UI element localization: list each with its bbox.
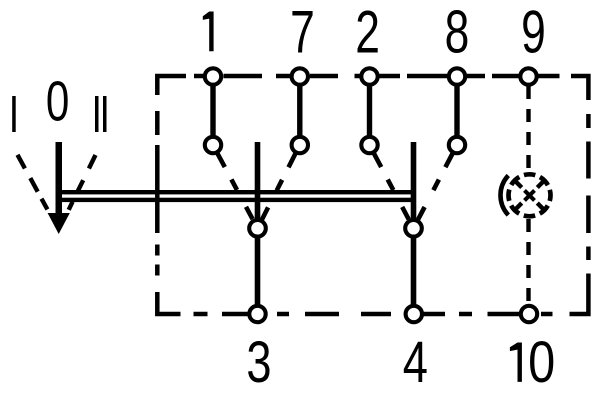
- lever arrow head: [48, 213, 70, 234]
- svg-text:0: 0: [46, 69, 69, 133]
- dashed contact path 2: [374, 153, 409, 219]
- svg-text:9: 9: [521, 0, 546, 66]
- dashed lever position line I: [18, 155, 48, 210]
- enclosure corner bottom-right: [570, 274, 589, 315]
- bridge bus upper line: [58, 190, 416, 194]
- dashed wire lamp to terminal 10: [526, 219, 530, 305]
- contact 2: [361, 137, 377, 153]
- wire vertical mover column 4: [411, 142, 417, 314]
- terminal 10: [521, 306, 537, 322]
- wire terminal 1 to contact: [210, 78, 215, 145]
- terminal 3: [249, 306, 265, 322]
- label terminal 1: [203, 12, 214, 52]
- contact 1: [205, 137, 221, 153]
- svg-text:2: 2: [355, 0, 380, 66]
- svg-text:4: 4: [403, 331, 428, 396]
- enclosure border right edge (dash-dot): [586, 114, 591, 260]
- enclosure border left edge (dash-dot): [155, 111, 160, 276]
- svg-text:0: 0: [528, 331, 555, 395]
- label position I: [12, 96, 16, 132]
- lamp L1 cross arms: [515, 181, 544, 210]
- wire vertical mover column 3: [255, 142, 261, 314]
- terminal 1: [205, 68, 221, 84]
- lamp L1 dashed circle: [509, 174, 551, 216]
- enclosure corner top-left: [157, 76, 186, 95]
- mover contact node column 4: [405, 220, 422, 237]
- terminal 4: [406, 306, 422, 322]
- dashed contact path 7: [262, 153, 296, 220]
- wire terminal 8 to contact: [454, 78, 459, 145]
- dashed contact path 1: [217, 153, 252, 219]
- dashed wire terminal 9 to lamp: [526, 86, 530, 172]
- dashed contact path 8: [418, 153, 453, 219]
- label terminal 10: [510, 343, 522, 382]
- lamp L1 center cross: [525, 190, 535, 200]
- terminal 9: [520, 68, 536, 84]
- svg-text:7: 7: [290, 0, 315, 66]
- svg-text:8: 8: [445, 0, 470, 66]
- contact 7: [292, 137, 308, 153]
- enclosure corner bottom-left: [157, 292, 180, 314]
- enclosure border bottom edge (dash-dot): [194, 312, 553, 317]
- label position II: [95, 96, 107, 132]
- wire terminal 7 to contact: [297, 78, 302, 145]
- contact 8: [449, 137, 465, 153]
- lever arrow (position 0) shaft: [56, 142, 63, 222]
- terminal 8: [449, 68, 465, 84]
- terminal 7: [292, 68, 308, 84]
- wire terminal 2 to contact: [367, 78, 372, 145]
- dashed lever position line II: [69, 155, 96, 210]
- lamp L1 reflector arc: [500, 176, 508, 216]
- mover contact node column 3: [249, 220, 266, 237]
- enclosure border top edge (dash-dot): [194, 74, 560, 79]
- bridge bus lower line: [58, 198, 416, 202]
- terminal 2: [361, 68, 377, 84]
- enclosure corner top-right: [571, 76, 588, 100]
- svg-text:3: 3: [246, 331, 271, 396]
